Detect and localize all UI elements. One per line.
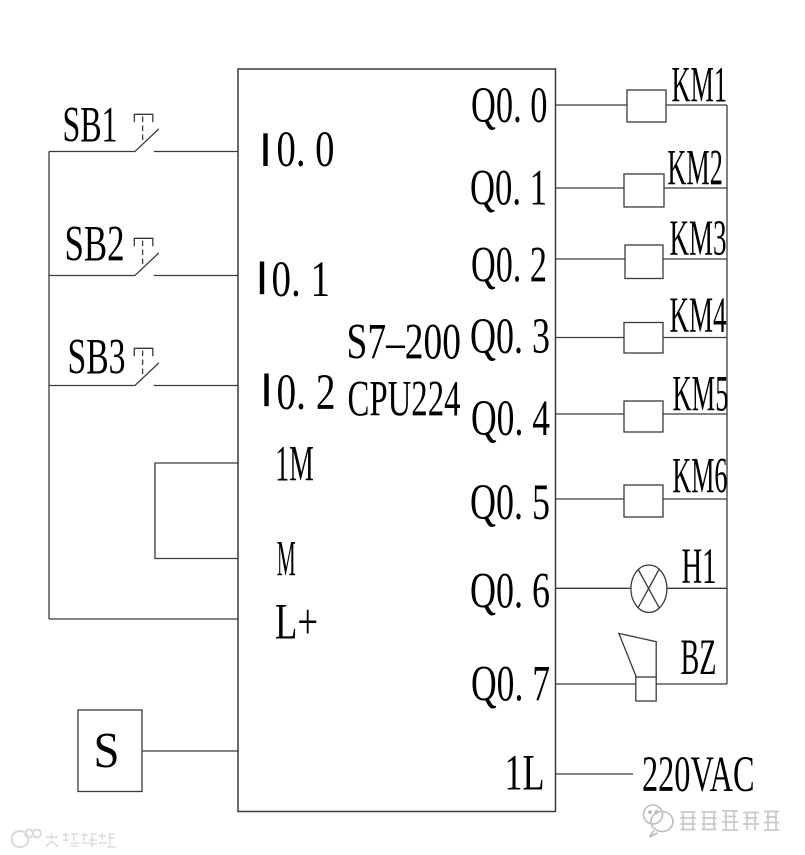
sensor S box	[78, 710, 142, 792]
svg-text:H1: H1	[682, 539, 717, 595]
wire KM1 to bus	[666, 104, 727, 106]
wire 1M to M external jumper	[155, 463, 238, 559]
svg-text:SB1: SB1	[63, 98, 118, 154]
wire I0.0 branch left segment	[49, 151, 135, 153]
wire KM3 to bus	[663, 258, 727, 260]
wire I0.0 branch right segment	[154, 151, 238, 153]
svg-text:KM5: KM5	[673, 367, 729, 423]
wire KM4 to bus	[663, 337, 727, 339]
wire Q0.7 to buzzer	[556, 683, 636, 685]
wire I0.1 branch right segment	[154, 275, 238, 277]
watermark logo bottom-right (speech bubbles)	[644, 805, 674, 837]
contactor coil KM1	[627, 90, 666, 122]
watermark logo bottom-left	[12, 830, 41, 848]
svg-text:KM6: KM6	[672, 449, 727, 505]
svg-text:Q0. 4: Q0. 4	[471, 391, 550, 447]
wire Q0.5 to coil	[556, 498, 625, 500]
wire I0.1 branch left segment	[49, 275, 135, 277]
svg-text:0. 2: 0. 2	[277, 365, 336, 421]
wire I0.2 branch left segment	[49, 385, 135, 387]
svg-text:Q0. 6: Q0. 6	[470, 564, 550, 620]
svg-text:L+: L+	[275, 595, 318, 651]
svg-text:0. 1: 0. 1	[272, 252, 331, 308]
contactor coil KM6	[624, 485, 663, 517]
contactor coil KM2	[624, 174, 664, 207]
svg-text:M: M	[277, 532, 296, 588]
wire buzzer to bus	[656, 683, 727, 685]
watermark text bottom-right (CJK)	[681, 811, 780, 830]
buzzer BZ	[619, 633, 656, 701]
wire S to PLC	[142, 750, 238, 752]
svg-text:Q0. 3: Q0. 3	[470, 309, 550, 365]
PLC U1 (S7-200 CPU224) body	[238, 69, 556, 812]
wire 1L to 220VAC	[556, 773, 634, 775]
wire KM6 to bus	[663, 498, 727, 500]
svg-text:SB3: SB3	[68, 330, 126, 386]
contactor coil KM3	[625, 245, 663, 279]
svg-text:0. 0: 0. 0	[277, 122, 335, 178]
svg-text:KM3: KM3	[670, 211, 727, 267]
wire lamp to bus	[667, 587, 727, 589]
svg-text:SB2: SB2	[65, 217, 125, 273]
watermark text bottom-left (CJK)	[45, 833, 116, 847]
svg-text:220VAC: 220VAC	[642, 747, 755, 803]
wire I0.2 branch right segment	[154, 385, 238, 387]
svg-text:Q0. 5: Q0. 5	[470, 475, 550, 531]
svg-text:CPU224: CPU224	[348, 372, 461, 428]
contactor coil KM5	[624, 401, 663, 432]
pushbutton SB2	[134, 238, 159, 275]
svg-text:Q0. 7: Q0. 7	[471, 657, 550, 713]
wire Q0.2 to coil	[556, 258, 626, 260]
svg-text:1M: 1M	[275, 437, 314, 493]
pushbutton SB3	[134, 348, 159, 386]
wire Q0.6 to lamp	[556, 587, 632, 589]
wire L+ branch	[49, 618, 238, 620]
svg-text:BZ: BZ	[681, 630, 717, 686]
wire KM5 to bus	[663, 413, 727, 415]
indicator lamp H1	[631, 565, 667, 612]
right supply bus wire	[726, 105, 728, 684]
svg-text:Q0. 1: Q0. 1	[470, 161, 547, 217]
pin label I0.2	[264, 365, 335, 421]
svg-text:Q0. 2: Q0. 2	[471, 238, 547, 294]
svg-text:S: S	[94, 724, 120, 780]
wire Q0.4 to coil	[556, 413, 625, 415]
pushbutton SB1	[134, 114, 159, 152]
wire Q0.3 to coil	[556, 337, 625, 339]
wire KM2 to bus	[664, 187, 727, 189]
svg-text:S7–200: S7–200	[347, 315, 462, 371]
svg-text:1L: 1L	[505, 746, 545, 802]
svg-text:KM2: KM2	[667, 141, 723, 197]
wire Q0.0 to coil	[556, 104, 628, 106]
svg-text:KM4: KM4	[670, 288, 727, 344]
pin label I0.0	[263, 122, 334, 178]
svg-text:Q0. 0: Q0. 0	[471, 78, 548, 134]
pin label I0.1	[260, 252, 330, 308]
wire Q0.1 to coil	[556, 187, 625, 189]
left supply bus wire	[48, 152, 50, 620]
contactor coil KM4	[624, 323, 663, 354]
svg-text:KM1: KM1	[672, 58, 728, 114]
